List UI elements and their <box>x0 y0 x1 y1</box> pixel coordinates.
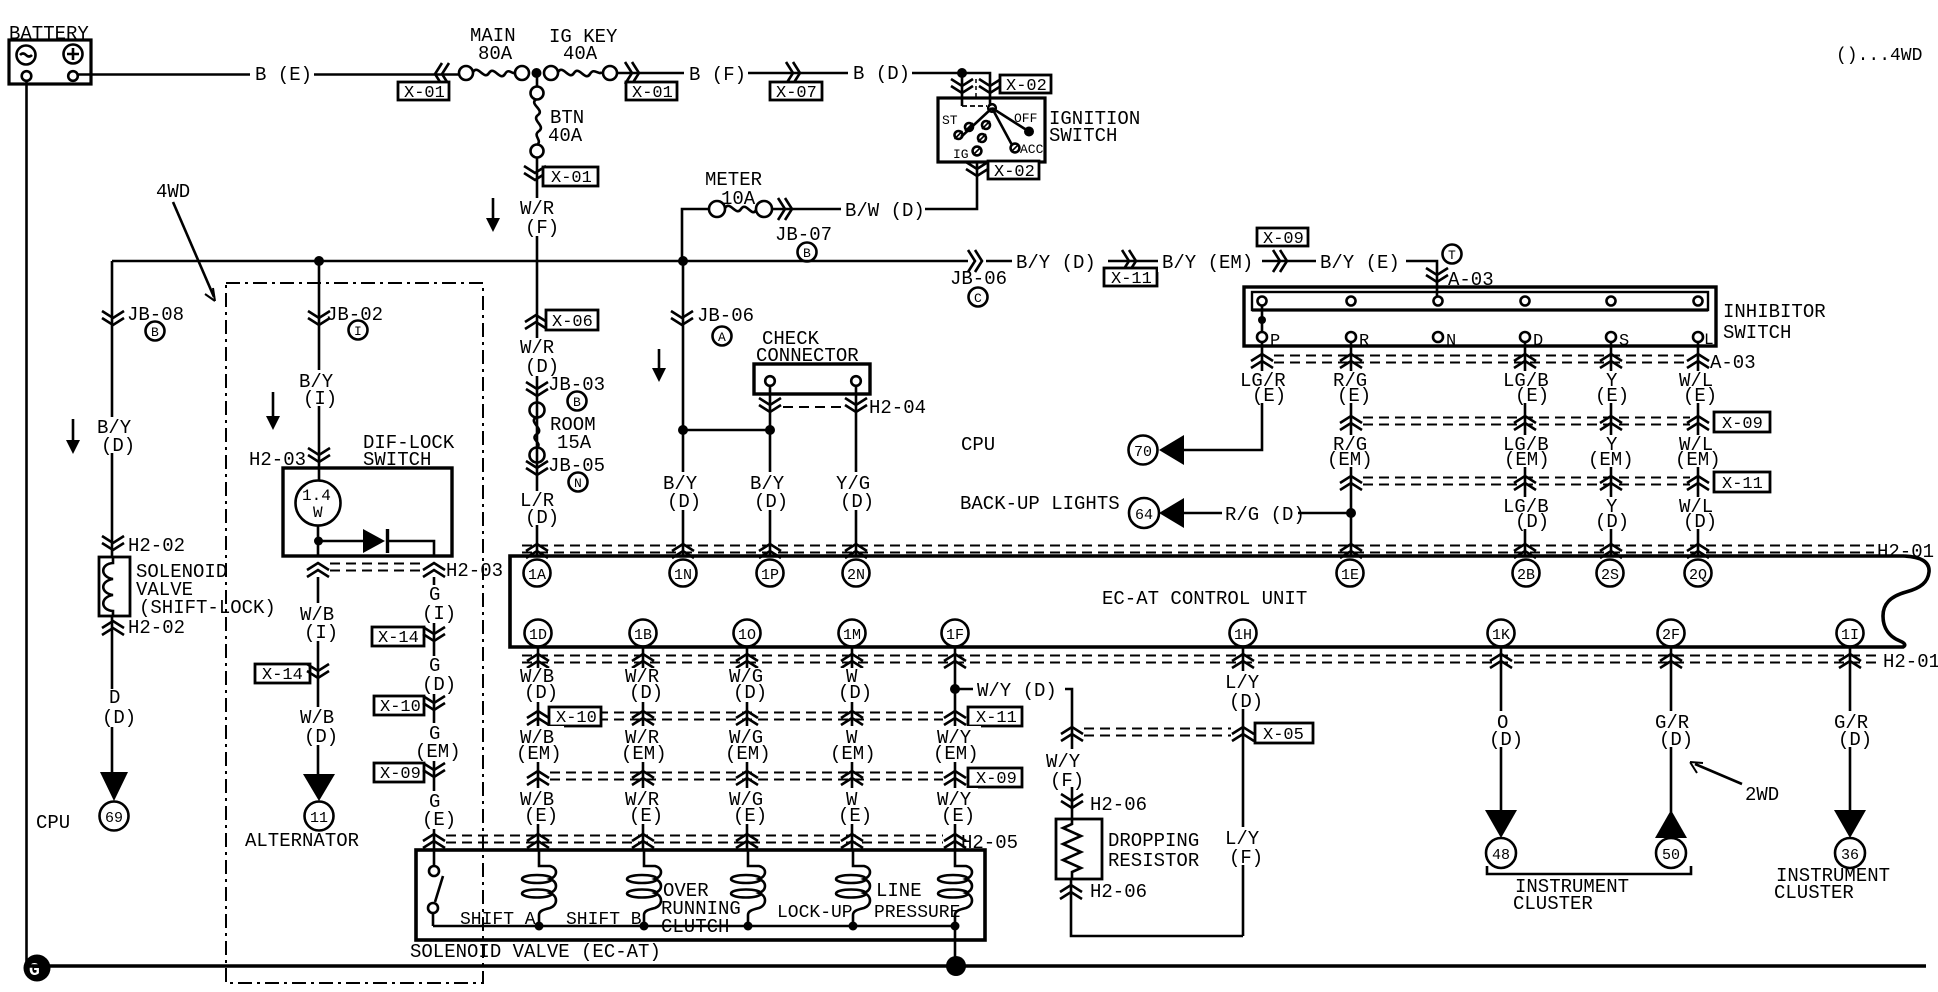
connector JB-06 chevron (C) <box>968 250 982 272</box>
svg-text:X-14: X-14 <box>378 629 419 648</box>
wire ignition switch output <box>682 162 977 261</box>
svg-text:CLUSTER: CLUSTER <box>1513 893 1593 915</box>
EC-AT control unit box <box>510 556 1929 647</box>
svg-text:C: C <box>974 291 982 306</box>
node label W/B (I) <box>297 603 341 644</box>
pin 2S <box>1597 560 1624 587</box>
svg-text:1A: 1A <box>528 567 546 584</box>
node label W/L (E) <box>1676 370 1722 407</box>
svg-text:SHIFT A: SHIFT A <box>460 910 536 930</box>
svg-text:B/Y (D): B/Y (D) <box>1016 252 1096 274</box>
svg-text:70: 70 <box>1134 444 1152 461</box>
node label LG/R (E) <box>1238 370 1296 407</box>
dashed link X-10/X-11 <box>550 713 943 720</box>
svg-text:I: I <box>354 324 362 339</box>
svg-text:X-09: X-09 <box>1263 230 1304 249</box>
inhibitor P contact link <box>1258 306 1266 332</box>
svg-text:T: T <box>1448 248 1456 263</box>
wire G column from diode <box>433 577 436 866</box>
node label W/R (EM) <box>619 726 669 765</box>
connector X-10 label box <box>549 707 601 728</box>
svg-text:W: W <box>313 504 323 522</box>
connector X-09 chevron row <box>527 771 549 785</box>
svg-text:X-06: X-06 <box>552 313 593 332</box>
svg-text:2WD: 2WD <box>1745 784 1779 806</box>
svg-text:X-02: X-02 <box>1006 77 1047 96</box>
connector X-09 chevron row <box>1340 416 1362 430</box>
junction dot diode tap <box>314 537 323 546</box>
svg-text:(D): (D) <box>754 491 788 513</box>
svg-text:(EM): (EM) <box>725 743 771 765</box>
connector X-11 label box <box>1104 268 1157 289</box>
svg-text:G: G <box>29 961 40 981</box>
instrument cluster bracket <box>1487 866 1691 874</box>
svg-text:(EM): (EM) <box>933 743 979 765</box>
connector X-09 chevron <box>423 763 445 777</box>
connector X-09 label box <box>1257 228 1308 249</box>
svg-text:ALTERNATOR: ALTERNATOR <box>245 830 359 852</box>
connector X-05 chevron <box>1232 727 1254 741</box>
dashed link H2-04 <box>783 406 843 408</box>
inhibitor top contact circles <box>1258 297 1703 306</box>
svg-text:H2-03: H2-03 <box>446 560 503 582</box>
coil SHIFT B <box>627 850 661 926</box>
svg-text:(D): (D) <box>840 491 874 513</box>
connector JB-08 name <box>127 304 184 341</box>
connector H2-03 chevron <box>308 448 330 462</box>
wire W/Y dropping resistor column <box>1071 722 1243 936</box>
diode <box>319 529 435 556</box>
svg-text:(D): (D) <box>525 507 559 529</box>
dashed link A-03 <box>1274 356 1690 363</box>
node label W/B (D) <box>516 666 560 704</box>
dif-lock switch <box>283 432 455 556</box>
svg-text:X-11: X-11 <box>976 709 1017 728</box>
svg-text:X-05: X-05 <box>1263 726 1304 745</box>
connector H2-01 chevron row (bottom) <box>527 654 1861 668</box>
svg-text:80A: 80A <box>478 43 513 65</box>
svg-text:B/Y (EM): B/Y (EM) <box>1162 252 1253 274</box>
svg-text:40A: 40A <box>563 43 598 65</box>
connector X-11 chevron <box>1122 250 1136 272</box>
svg-text:(E): (E) <box>629 805 663 827</box>
svg-text:(EM): (EM) <box>1675 449 1721 471</box>
wire JB-02 branch <box>318 261 321 468</box>
svg-text:W/Y (D): W/Y (D) <box>977 680 1057 702</box>
svg-text:(E): (E) <box>1595 385 1629 407</box>
svg-text:64: 64 <box>1135 507 1153 524</box>
wire 1F column <box>954 647 957 850</box>
node label Y (D) <box>1593 496 1629 533</box>
arrow from instrument cluster 50 <box>1655 810 1687 838</box>
svg-text:CLUSTER: CLUSTER <box>1774 882 1854 904</box>
wire BTN drop <box>536 73 539 87</box>
connector X-14 chevron <box>307 664 329 678</box>
svg-text:R: R <box>1359 332 1369 351</box>
node label B/Y (D) <box>747 472 791 513</box>
svg-text:(D): (D) <box>422 674 456 696</box>
connector X-14 label box <box>372 627 424 648</box>
svg-text:B (F): B (F) <box>689 64 746 86</box>
node label R/G (D) <box>1222 502 1305 526</box>
dashed link H2-01 top <box>522 546 1874 553</box>
svg-text:X-10: X-10 <box>556 709 597 728</box>
pin 1E <box>1337 560 1364 587</box>
connector H2-02 chevron <box>102 536 124 550</box>
node label G (E) <box>420 791 456 831</box>
svg-text:(E): (E) <box>838 805 872 827</box>
wire B (F) <box>617 72 962 75</box>
svg-text:(D): (D) <box>524 682 558 704</box>
connector X-09 label box <box>1714 412 1770 434</box>
connector H2-02 chevron (below) <box>102 621 124 635</box>
svg-text:50: 50 <box>1662 847 1680 864</box>
pin 1M <box>839 620 866 647</box>
connector X-09 label box <box>374 763 424 784</box>
svg-text:(E): (E) <box>733 805 767 827</box>
node label W/B (D) <box>297 707 341 748</box>
node label W/B (EM) <box>514 726 564 765</box>
pin 2Q <box>1685 560 1712 587</box>
dashed link X-09 <box>550 773 943 780</box>
node label W/B (E) <box>516 788 560 827</box>
svg-text:ST: ST <box>942 113 958 128</box>
junction dot JB-02 tap <box>314 256 324 266</box>
node label L/R (D) <box>516 490 559 529</box>
svg-text:69: 69 <box>105 810 123 827</box>
svg-text:N: N <box>1446 332 1456 351</box>
pin 1K <box>1488 620 1515 647</box>
connector JB-05 chevron <box>526 461 548 475</box>
junction dot 1N link <box>678 425 688 435</box>
pin 1D <box>525 620 552 647</box>
svg-text:(E): (E) <box>941 805 975 827</box>
svg-text:(I): (I) <box>422 603 456 625</box>
svg-text:IG: IG <box>953 147 969 162</box>
svg-text:1F: 1F <box>946 627 964 644</box>
connector X-01 chevron <box>435 63 449 85</box>
svg-text:2B: 2B <box>1517 567 1535 584</box>
svg-text:S: S <box>1619 332 1629 351</box>
node label B/Y (I) <box>297 370 339 410</box>
svg-text:CLUTCH: CLUTCH <box>661 916 729 938</box>
svg-text:(E): (E) <box>1337 385 1371 407</box>
solenoid valve (EC-AT) box <box>416 850 985 940</box>
svg-text:JB-06: JB-06 <box>697 305 754 327</box>
instrument cluster pin 48 <box>1486 838 1516 868</box>
connector H2-01 name (top) <box>1876 540 1936 563</box>
junction dot main/igkey <box>532 68 542 78</box>
wire R column <box>1350 342 1353 556</box>
svg-text:(EM): (EM) <box>516 743 562 765</box>
svg-text:LOCK-UP: LOCK-UP <box>777 903 853 923</box>
svg-text:(D): (D) <box>1489 729 1523 751</box>
ground symbol G <box>24 955 51 982</box>
svg-text:(D): (D) <box>1683 511 1717 533</box>
pin 1B <box>630 620 657 647</box>
svg-text:(EM): (EM) <box>830 743 876 765</box>
svg-text:X-14: X-14 <box>262 666 303 685</box>
inhibitor terminals P R N D S L <box>1257 331 1714 351</box>
svg-text:(E): (E) <box>1252 385 1286 407</box>
connector X-01 label box <box>398 82 449 103</box>
wire check connector pin1 to 1P <box>769 386 772 556</box>
connector X-09 chevron <box>1273 250 1287 272</box>
svg-text:H2-04: H2-04 <box>869 397 926 419</box>
svg-text:H2-01: H2-01 <box>1883 651 1938 673</box>
svg-text:()...4WD: ()...4WD <box>1836 46 1922 66</box>
wire D column <box>1524 342 1527 556</box>
flow arrow <box>652 349 666 382</box>
wire 1D column <box>537 647 540 850</box>
node label B/Y (D) <box>660 472 704 513</box>
svg-text:D: D <box>109 687 120 709</box>
svg-text:PRESSURE: PRESSURE <box>874 903 960 923</box>
svg-text:H2-06: H2-06 <box>1090 881 1147 903</box>
CPU pin 69 circle <box>100 802 129 831</box>
ground wire bottom <box>27 964 1926 967</box>
connector X-02 label box <box>1000 75 1051 96</box>
svg-text:INHIBITOR: INHIBITOR <box>1723 301 1826 323</box>
solenoid switch contact <box>428 866 443 926</box>
svg-text:B: B <box>573 395 581 410</box>
wire into ignition switch <box>962 73 990 106</box>
svg-text:R/G (D): R/G (D) <box>1225 504 1305 526</box>
node label W/L (EM) <box>1673 434 1725 471</box>
svg-text:A: A <box>718 330 726 345</box>
connector X-09 label box <box>968 768 1022 789</box>
wire W/B (I) <box>317 577 320 774</box>
connector X-07 label box <box>770 82 822 103</box>
connector X-10 chevron <box>423 696 445 710</box>
junction dot <box>951 922 960 931</box>
connector JB-02 chevron <box>308 311 330 325</box>
node label G (EM) <box>414 723 461 763</box>
pin 1I <box>1837 620 1864 647</box>
svg-text:X-11: X-11 <box>1111 270 1152 289</box>
connector X-14 label box <box>255 664 310 685</box>
svg-text:48: 48 <box>1492 847 1510 864</box>
svg-text:1M: 1M <box>843 627 861 644</box>
pin 1P <box>757 560 784 587</box>
node label W/G (EM) <box>723 726 773 765</box>
dashed link X-05 <box>1084 729 1231 736</box>
svg-text:(E): (E) <box>1683 385 1717 407</box>
2WD pointer arrow <box>1690 762 1779 806</box>
wire 2F column <box>1670 647 1673 812</box>
junction dot <box>535 922 544 931</box>
svg-text:H2-02: H2-02 <box>128 617 185 639</box>
svg-text:CPU: CPU <box>36 812 70 834</box>
svg-text:1D: 1D <box>529 627 547 644</box>
alternator pin 11 circle <box>305 802 334 831</box>
wire B (E) battery to X-01 <box>78 73 460 76</box>
node label B (D) <box>848 62 912 85</box>
connector JB-05 name <box>548 455 605 492</box>
connector X-01 label box <box>543 167 598 188</box>
inhibitor switch <box>1244 287 1826 346</box>
node label L/Y (F) <box>1221 827 1265 869</box>
svg-text:JB-02: JB-02 <box>326 304 383 326</box>
junction dot <box>640 922 649 931</box>
junction dot meter tap <box>678 256 688 266</box>
node label B (E) <box>250 62 314 86</box>
svg-text:4WD: 4WD <box>156 181 190 203</box>
wire JB-06 A branch down <box>683 261 770 430</box>
wire R/G (D) to back-up lights <box>1184 512 1351 515</box>
svg-text:1N: 1N <box>674 567 692 584</box>
connector H2-05 chevron <box>423 834 445 848</box>
junction dot at ignition feed <box>957 68 967 78</box>
connector X-05 chevron (left) <box>1061 727 1083 741</box>
connector H2-06 chevron (below) <box>1060 885 1082 899</box>
connector JB-08 chevron <box>102 311 124 325</box>
svg-text:CPU: CPU <box>961 434 995 456</box>
arrow to alternator pin 11 <box>303 774 335 801</box>
svg-text:(F): (F) <box>1050 770 1084 792</box>
connector JB-03 chevron <box>526 382 548 396</box>
node label LG/B (E) <box>1501 370 1559 407</box>
node label W/R (F) <box>516 198 559 239</box>
svg-text:(EM): (EM) <box>1504 449 1550 471</box>
svg-text:(D): (D) <box>102 707 136 729</box>
svg-text:X-07: X-07 <box>776 84 817 103</box>
node label W/R (D) <box>621 666 665 704</box>
wire B/Y to inhibitor <box>986 261 1437 297</box>
svg-text:X-01: X-01 <box>632 84 673 103</box>
node label W/G (D) <box>725 666 769 704</box>
node label B (F) <box>684 62 748 86</box>
connector H2-01 name (bottom) <box>1882 650 1938 673</box>
node label W (EM) <box>828 726 878 765</box>
junction dot R column <box>1346 508 1356 518</box>
connector H2-06 chevron <box>1061 794 1083 808</box>
dashed link X-11 <box>1363 478 1690 485</box>
coil LINE PRESSURE <box>938 850 972 926</box>
svg-text:X-01: X-01 <box>551 169 592 188</box>
svg-text:A-03: A-03 <box>1710 352 1756 374</box>
svg-text:X-09: X-09 <box>976 770 1017 789</box>
svg-text:H2-02: H2-02 <box>128 535 185 557</box>
node label W/R (E) <box>621 788 665 827</box>
svg-text:SWITCH: SWITCH <box>1049 125 1117 147</box>
svg-text:1.4: 1.4 <box>302 487 331 505</box>
fuse MAIN 80A <box>459 25 529 80</box>
junction dot <box>744 922 753 931</box>
wire 1B column <box>642 647 645 850</box>
svg-text:H2-01: H2-01 <box>1877 541 1934 563</box>
wire line pressure to ground <box>954 926 957 966</box>
arrow to CPU pin 69 <box>100 772 128 801</box>
pin 1N <box>670 560 697 587</box>
connector X-10 chevron row <box>527 711 549 725</box>
dropping resistor <box>1056 819 1199 879</box>
node label W/L (D) <box>1676 496 1722 533</box>
svg-text:2Q: 2Q <box>1689 567 1707 584</box>
connector X-06 chevron <box>525 315 547 329</box>
svg-text:X-09: X-09 <box>380 765 421 784</box>
svg-text:40A: 40A <box>548 125 583 147</box>
svg-text:(D): (D) <box>733 682 767 704</box>
connector JB-06 C name <box>950 268 1007 307</box>
svg-text:(I): (I) <box>304 622 338 644</box>
svg-text:ACC: ACC <box>1020 142 1044 157</box>
svg-text:2N: 2N <box>847 567 865 584</box>
connector JB-07 chevron <box>778 198 792 220</box>
svg-text:SOLENOID VALVE (EC-AT): SOLENOID VALVE (EC-AT) <box>410 941 661 963</box>
svg-text:L: L <box>1704 331 1714 349</box>
pin 1A <box>524 560 551 587</box>
connector X-14 chevron <box>423 627 445 641</box>
svg-text:(D): (D) <box>667 491 701 513</box>
svg-text:(D): (D) <box>304 726 338 748</box>
svg-text:(E): (E) <box>422 809 456 831</box>
wire S column <box>1610 342 1613 556</box>
node label G/R (D) <box>1651 711 1695 751</box>
node label W (E) <box>836 788 872 827</box>
pin 2F <box>1658 620 1685 647</box>
svg-text:(D): (D) <box>1838 729 1872 751</box>
junction dot 1P link <box>765 425 775 435</box>
dashed link H2-01 bottom <box>522 656 1880 663</box>
arrow to back-up lights 64 <box>1129 498 1184 528</box>
node label W/R (D) <box>516 337 559 378</box>
connector X-01 chevron (right of IG KEY) <box>625 62 639 84</box>
connector X-02 chevron below ignition <box>966 162 988 176</box>
fuse BTN 40A <box>531 87 585 158</box>
svg-text:SHIFT B: SHIFT B <box>566 910 642 930</box>
connector A-03 chevron row <box>1251 354 1273 368</box>
wire L column <box>1697 342 1700 556</box>
solenoid common bus wire <box>433 925 955 928</box>
connector X-10 label box <box>374 696 424 717</box>
flow arrow <box>486 198 500 232</box>
wire 1O column <box>746 647 749 850</box>
connector X-11 label box <box>1714 472 1770 494</box>
svg-text:2S: 2S <box>1601 567 1619 584</box>
connector H2-01 chevron row (top) <box>526 544 1709 558</box>
svg-text:RESISTOR: RESISTOR <box>1108 850 1199 872</box>
connector X-07 chevron <box>786 62 800 84</box>
svg-text:(EM): (EM) <box>1327 449 1373 471</box>
svg-text:(D): (D) <box>1595 511 1629 533</box>
svg-text:1P: 1P <box>761 567 779 584</box>
svg-text:OFF: OFF <box>1014 111 1037 126</box>
node label B/Y (EM) <box>1158 250 1262 274</box>
battery <box>9 23 91 84</box>
wire JB-08 branch <box>111 261 114 772</box>
connector JB-07 name <box>775 224 832 262</box>
svg-text:11: 11 <box>310 810 328 827</box>
pin 1H <box>1230 620 1257 647</box>
wire P column <box>1184 342 1262 450</box>
svg-text:1I: 1I <box>1841 627 1859 644</box>
fuse METER 10A <box>705 169 772 217</box>
instrument cluster label (right) <box>1774 865 1890 904</box>
connector I circle at A-03 <box>1443 245 1462 264</box>
pin 1F <box>942 620 969 647</box>
connector X-01 label box <box>626 82 677 103</box>
connector JB-02 name <box>326 304 383 340</box>
svg-text:B/Y (E): B/Y (E) <box>1320 252 1400 274</box>
connector H2-05 chevron row <box>527 834 549 848</box>
svg-text:36: 36 <box>1841 847 1859 864</box>
node label B/Y (D) <box>1012 250 1108 274</box>
connector A-03 chevron <box>1426 268 1448 282</box>
connector X-06 label box <box>546 310 598 332</box>
node label R/G (E) <box>1330 370 1376 407</box>
svg-text:1K: 1K <box>1492 627 1510 644</box>
